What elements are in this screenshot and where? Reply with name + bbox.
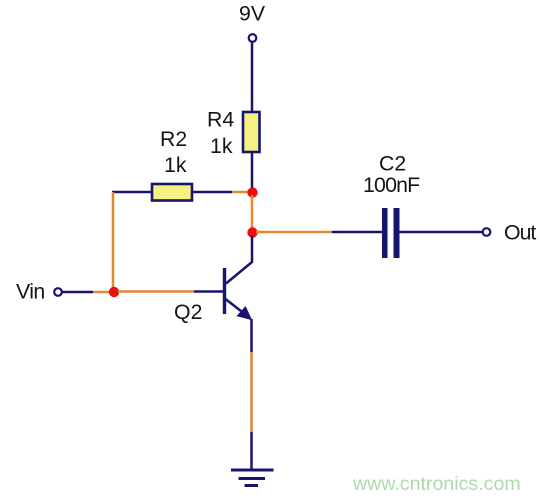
value 1k (R4) [210,134,233,158]
ground [231,470,274,486]
svg-text:1k: 1k [164,153,187,177]
label R2 [160,127,187,151]
terminal Vin [54,288,62,296]
wire node B to collector [226,236,252,284]
wire node A to node B [251,195,254,230]
terminal Out [483,228,491,236]
node 9V label [239,2,266,26]
capacitor C2 [382,208,400,258]
value 1k (R2) [164,153,187,177]
wire emitter down (orange part) [250,352,253,432]
svg-text:1k: 1k [210,134,233,158]
node Vin label [16,280,45,304]
svg-text:100nF: 100nF [363,173,420,197]
wire emitter down (blue part) [250,319,253,352]
svg-text:Out: Out [504,221,536,245]
svg-text:C2: C2 [379,152,406,176]
resistor R4 [243,112,260,152]
transistor Q2 base bar [223,268,226,314]
wire 9V to R4 [251,43,254,113]
svg-text:Vin: Vin [16,280,45,304]
wire left corner to R2 [112,191,152,194]
svg-text:9V: 9V [239,2,266,26]
label Q2 [174,300,202,324]
wire R2 to node A (orange part) [232,191,251,194]
wire node B to C2 (orange part) [256,231,332,234]
wire C2 to Out [400,231,483,234]
svg-text:Q2: Q2 [174,300,202,324]
resistor R2 [152,184,192,201]
transistor Q2 emitter with arrow [226,299,253,320]
node Out label [504,221,536,245]
wire feedback vertical [112,192,115,291]
terminal 9V [249,34,257,42]
wire Vin terminal to junction (blue part) [63,291,94,294]
wire junction to base (orange part) [118,290,194,293]
value 100nF [363,173,420,197]
watermark www.cntronics.com [352,473,521,495]
wire Vin terminal to junction (orange part) [93,291,113,294]
svg-text:R4: R4 [207,108,234,132]
wire to ground (blue part) [250,432,253,469]
node Vin junction [109,287,119,297]
wire to base (blue part) [194,290,223,293]
svg-text:R2: R2 [160,127,187,151]
wire R2 to node A (blue part) [192,191,232,194]
wire to C2 (blue part) [332,231,382,234]
svg-text:www.cntronics.com: www.cntronics.com [352,473,521,495]
label R4 [207,108,234,132]
wire R4 to node A [251,152,254,190]
node B junction [247,227,257,237]
label C2 [379,152,406,176]
node A junction [247,187,257,197]
